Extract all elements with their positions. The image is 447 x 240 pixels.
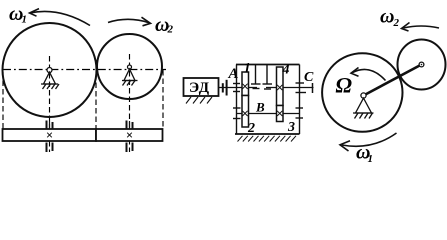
plan view roller 1 (bottom rectangle) [3, 129, 97, 141]
gear 1 on shaft A [242, 72, 249, 96]
omega2 rotation arrow (right figure) [402, 23, 440, 32]
projection line wheel2 center (dashed) [129, 54, 131, 152]
cross mark gear 1 [242, 84, 247, 89]
projection line contact point (dashed) [95, 74, 97, 129]
plan view roller 2 (bottom rectangle) [96, 129, 163, 141]
shaft 1 bearing marks above [47, 121, 53, 129]
svg-text:1: 1 [368, 153, 374, 165]
hanger bearing shaft C left end [263, 65, 273, 90]
svg-text:ЭД: ЭД [189, 80, 210, 96]
motor base hatching [186, 97, 212, 104]
pin joint at wheel small center [419, 62, 424, 67]
housing right wall [299, 65, 301, 135]
gear 3 on shaft B [277, 106, 284, 122]
svg-text:2: 2 [247, 121, 255, 136]
axis centerline horizontal (dash-dot) [3, 69, 166, 71]
svg-text:2: 2 [393, 17, 400, 29]
shaft 1 bearing marks below [47, 143, 53, 153]
electric motor box ED [184, 78, 219, 96]
shaft 2 bearing marks below [127, 143, 133, 153]
pivot support wheel 1 [41, 68, 59, 90]
wheel 1 (large friction wheel) [3, 23, 97, 117]
svg-text:1: 1 [22, 14, 28, 26]
svg-text:Ω: Ω [336, 73, 353, 98]
housing bottom line [235, 133, 300, 135]
bearing shaft C in right wall [296, 83, 307, 93]
projection line left tangent (dashed) [2, 72, 4, 129]
shaft B (intermediate) [236, 113, 300, 115]
wheel large (right figure) [322, 53, 402, 132]
pin joint at wheel large center [361, 93, 366, 98]
svg-text:C: C [304, 70, 314, 85]
omega1 rotation arrow (right figure) [340, 133, 397, 151]
bearing shaft A in left wall [233, 84, 240, 92]
shaft 2 bearing marks above [127, 121, 133, 129]
crank link [364, 65, 422, 96]
svg-text:3: 3 [287, 120, 295, 135]
gear 4 on shaft C [277, 67, 284, 106]
svg-text:1: 1 [244, 61, 251, 77]
wheel small (right figure) [398, 40, 446, 90]
cross mark gear 4 [277, 85, 282, 90]
housing top line [236, 64, 300, 66]
housing left wall [236, 65, 238, 135]
shaft C end tick [312, 83, 314, 93]
omega1 rotation arrow (left figure) [30, 9, 91, 26]
svg-text:B: B [255, 100, 265, 115]
projection line right tangent (dashed) [162, 70, 164, 129]
housing ground hatching [238, 136, 297, 142]
pivot support wheel 2 [122, 65, 138, 86]
bearing shaft B in left wall [233, 108, 241, 119]
fixed support (right figure) [353, 98, 374, 118]
projection line wheel1 center (dashed) [49, 56, 51, 152]
wheel 2 (small friction wheel) [97, 34, 162, 99]
hanger bearing shaft A right end [251, 65, 261, 89]
shaft A (input) [219, 87, 258, 89]
cross mark shaft 2 [127, 133, 132, 138]
cross mark gear 2 [242, 111, 247, 116]
cross mark shaft 1 [47, 133, 52, 138]
svg-text:ω: ω [380, 6, 394, 28]
svg-text:4: 4 [282, 63, 290, 78]
omega2 rotation arrow (left figure) [108, 17, 151, 26]
Omega rotation arrow [351, 68, 386, 81]
gear 2 on shaft B [242, 96, 249, 128]
svg-text:2: 2 [167, 24, 174, 36]
cross mark gear 3 [277, 111, 282, 116]
shaft C (output) [266, 87, 314, 89]
bearing shaft B in right wall [296, 108, 304, 118]
coupling on shaft A [223, 80, 227, 96]
